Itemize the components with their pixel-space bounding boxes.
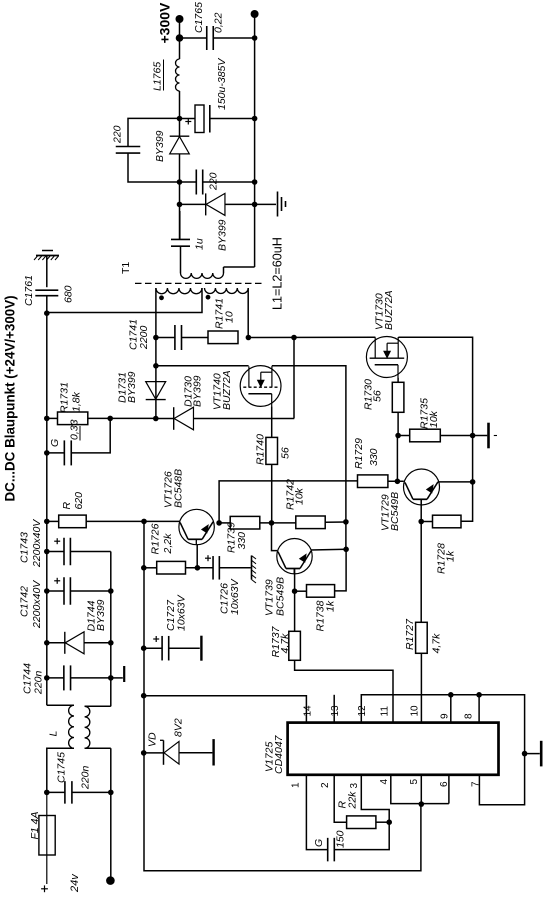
capacitor C1761 xyxy=(46,256,48,288)
svg-text:4: 4 xyxy=(379,779,390,785)
node C1744 0V xyxy=(108,675,114,681)
node A2 150u xyxy=(252,116,258,122)
node C1745 left xyxy=(44,790,50,796)
wire 0V rail upper xyxy=(110,552,112,707)
node cross link xyxy=(291,335,297,341)
resistor R1728 xyxy=(421,521,432,523)
svg-text:10x63V: 10x63V xyxy=(176,594,188,631)
svg-text:R1731: R1731 xyxy=(59,382,71,413)
winding polarity dot left xyxy=(159,295,164,300)
node zener rail xyxy=(141,750,147,756)
pin 9 stub xyxy=(450,695,452,723)
svg-text:1,8k: 1,8k xyxy=(71,391,83,412)
diode D1730 BY399 xyxy=(173,407,175,430)
node RC junction xyxy=(386,819,392,825)
node A1 xyxy=(176,34,184,42)
node A2 C1765 xyxy=(252,35,258,41)
wire collector riser xyxy=(219,481,357,523)
wire emitter VT1726 down xyxy=(196,545,198,568)
node C1745 right xyxy=(108,790,114,796)
svg-text:C1745: C1745 xyxy=(56,752,68,783)
wire +24V rail xyxy=(46,313,48,705)
node C1741 left xyxy=(153,335,159,341)
svg-text:2200x40V: 2200x40V xyxy=(31,580,43,629)
svg-text:10: 10 xyxy=(409,705,420,717)
svg-text:R1729: R1729 xyxy=(353,438,365,469)
capacitor C1743 xyxy=(47,551,64,553)
capacitor C1741 xyxy=(156,337,175,339)
node drain link R1742 xyxy=(343,519,349,525)
wire +300V rail upper xyxy=(179,19,181,59)
capacitor C1745 xyxy=(47,791,65,793)
svg-text:BY399: BY399 xyxy=(192,375,204,407)
wire source VT1740 xyxy=(271,407,273,438)
node C1742 0V xyxy=(108,588,114,594)
ground IC right xyxy=(525,753,540,755)
transistor VT1726 BC548B xyxy=(179,509,214,544)
svg-text:5: 5 xyxy=(409,779,420,785)
svg-text:330: 330 xyxy=(368,448,380,466)
fuse F1 xyxy=(39,816,55,856)
svg-text:R1727: R1727 xyxy=(404,618,416,650)
inductor L1765 xyxy=(176,59,180,91)
node ground R1735 xyxy=(470,433,476,439)
wire source VT1730 xyxy=(397,378,399,383)
ground output xyxy=(255,203,276,205)
ground C1726 xyxy=(251,556,253,580)
capacitor C1765 xyxy=(180,37,207,39)
node D1744 rail xyxy=(44,640,50,646)
node R620 rail xyxy=(44,519,50,525)
svg-text:G: G xyxy=(49,439,61,447)
wire emitter VT1739 xyxy=(311,548,346,551)
svg-text:C1743: C1743 xyxy=(19,532,31,563)
mosfet VT1730 BUZ72A xyxy=(366,337,407,378)
svg-text:10k: 10k xyxy=(294,487,306,505)
node pin9 xyxy=(448,692,454,698)
plus terminal xyxy=(41,888,48,890)
pin 2 wire xyxy=(334,775,346,822)
node ground IC xyxy=(522,751,528,757)
svg-text:1k: 1k xyxy=(445,550,457,562)
diode D_B BY399 lower xyxy=(180,203,206,205)
resistor R1726 xyxy=(144,567,157,569)
svg-text:BY399: BY399 xyxy=(154,130,166,162)
capacitor C1742 xyxy=(47,590,64,592)
svg-text:220n: 220n xyxy=(80,765,92,790)
node D1731 xyxy=(153,416,159,422)
svg-text:C1761: C1761 xyxy=(23,275,35,306)
wire emitter VT1729 right xyxy=(438,481,473,483)
svg-text:9: 9 xyxy=(439,713,450,719)
resistor R1740 xyxy=(266,437,278,464)
svg-text:220: 220 xyxy=(112,125,124,144)
ground C1744 xyxy=(111,677,123,679)
svg-text:R1740: R1740 xyxy=(255,434,267,465)
pin 13 stub xyxy=(333,695,335,723)
wire to pin 14 xyxy=(144,696,307,723)
wire primary left end down xyxy=(155,288,157,419)
node pin5 xyxy=(419,801,425,807)
transformer T1 primary right winding xyxy=(205,288,249,293)
ground R1735 xyxy=(473,435,488,437)
svg-text:2200x40V: 2200x40V xyxy=(31,519,43,568)
capacitor C1726 xyxy=(212,556,214,580)
svg-text:BC549B: BC549B xyxy=(275,577,287,616)
mosfet VT1740 BUZ72A xyxy=(240,366,281,407)
diode D1744 BY399 xyxy=(47,642,65,644)
node +300V terminal xyxy=(176,15,184,23)
svg-text:VD: VD xyxy=(147,732,159,747)
capacitor C1744 xyxy=(47,677,64,679)
wire base VT1739 xyxy=(272,523,278,551)
node D1744 0V xyxy=(108,640,114,646)
pin 6 stub xyxy=(448,775,450,804)
svg-text:13: 13 xyxy=(330,705,341,717)
svg-text:L1=L2=60uH: L1=L2=60uH xyxy=(271,237,285,310)
svg-text:BY399: BY399 xyxy=(95,599,107,631)
node +24V tap xyxy=(44,310,50,316)
svg-text:L: L xyxy=(48,731,60,737)
svg-text:4,7k: 4,7k xyxy=(431,633,443,654)
resistor R1737 xyxy=(294,591,296,631)
wire drain VT1740 xyxy=(272,366,346,550)
svg-text:0,22: 0,22 xyxy=(213,12,225,33)
node 0.33 junction xyxy=(107,416,113,422)
svg-text:220: 220 xyxy=(208,172,220,191)
svg-text:BUZ72A: BUZ72A xyxy=(383,290,395,330)
wire center tap xyxy=(47,288,202,313)
node rail R1731 xyxy=(44,416,50,422)
svg-text:R1726: R1726 xyxy=(150,523,162,554)
svg-text:1k: 1k xyxy=(325,600,337,612)
node C1744 rail xyxy=(44,675,50,681)
svg-text:10: 10 xyxy=(224,311,236,323)
resistor R1730 xyxy=(392,382,404,412)
pin 4 stub xyxy=(391,775,449,804)
wire cross link down xyxy=(293,338,295,419)
node A2 220 xyxy=(252,179,258,185)
node C1743 rail xyxy=(44,549,50,555)
svg-text:G: G xyxy=(313,839,325,847)
pin 5 stub xyxy=(420,775,422,805)
node W1 rail xyxy=(141,693,147,699)
node pin8 xyxy=(476,692,482,698)
node emitter rail xyxy=(470,479,476,485)
svg-text:150: 150 xyxy=(335,830,347,848)
capacitor 0,33 xyxy=(44,450,50,456)
node snubber top xyxy=(177,179,183,185)
svg-text:11: 11 xyxy=(379,706,390,717)
svg-text:14: 14 xyxy=(303,705,314,717)
wire rail L1765 to C150u xyxy=(179,91,181,136)
transformer T1 secondary winding xyxy=(181,273,224,278)
svg-text:CD4047: CD4047 xyxy=(273,734,285,774)
node A2 diode xyxy=(252,202,258,208)
wire node to R1730 xyxy=(396,436,398,482)
pin 8 stub xyxy=(478,695,480,723)
wire base drop VT1729 xyxy=(420,499,422,521)
svg-text:T1: T1 xyxy=(120,262,132,274)
choke L winding A xyxy=(47,704,74,706)
node C1742 rail xyxy=(44,588,50,594)
svg-text:BC548B: BC548B xyxy=(173,469,185,508)
node emitter VT1739 xyxy=(343,547,349,553)
wire gate VT1740 xyxy=(156,365,249,367)
svg-text:620: 620 xyxy=(73,492,85,510)
node C1727 rail xyxy=(141,645,147,651)
wire 0V rail lower xyxy=(110,748,112,880)
svg-text:22k: 22k xyxy=(347,791,359,810)
resistor R1735 xyxy=(398,435,410,437)
capacitor 1u xyxy=(179,211,181,239)
capacitor 220 snubber xyxy=(128,118,180,146)
svg-text:4,7k: 4,7k xyxy=(279,633,291,654)
node A2 top xyxy=(251,10,259,18)
node collector VT1726 xyxy=(216,520,222,526)
capacitor 150u-385V xyxy=(180,118,196,120)
wire diode row xyxy=(156,418,174,420)
resistor R1729 xyxy=(358,475,388,488)
node base feed xyxy=(141,519,147,525)
svg-text:10x63V: 10x63V xyxy=(229,578,241,615)
transformer T1 core xyxy=(135,282,265,284)
diode D1731 BY399 xyxy=(146,399,166,401)
node R1741 right xyxy=(246,335,252,341)
node R1738 junction xyxy=(292,588,298,594)
svg-text:2,2k: 2,2k xyxy=(162,533,174,555)
svg-text:BC549B: BC549B xyxy=(389,492,401,531)
resistor R620 xyxy=(47,520,59,522)
svg-text:8V2: 8V2 xyxy=(173,718,185,737)
resistor R1739 xyxy=(219,522,230,524)
svg-text:24v: 24v xyxy=(69,873,81,893)
svg-text:DC...DC Blaupunkt (+24V/+300V): DC...DC Blaupunkt (+24V/+300V) xyxy=(3,295,18,501)
svg-text:6: 6 xyxy=(439,781,450,787)
svg-text:C1742: C1742 xyxy=(19,586,31,617)
wire rail diode to 220 node xyxy=(179,154,181,239)
svg-text:56: 56 xyxy=(372,390,384,402)
node base VT1729 xyxy=(395,479,401,485)
svg-text:C1765: C1765 xyxy=(193,2,205,33)
svg-text:F1 4A: F1 4A xyxy=(29,811,41,839)
node R1740 bottom xyxy=(269,520,275,526)
transformer T1 primary left winding xyxy=(156,288,202,294)
node rail R1726 xyxy=(141,565,147,571)
winding polarity dot right xyxy=(206,295,211,300)
ground input top xyxy=(42,250,53,252)
pin 1 wire and timing cap xyxy=(306,775,327,850)
node R1728 left xyxy=(418,519,424,525)
svg-text:680: 680 xyxy=(63,285,75,303)
svg-text:3: 3 xyxy=(349,783,360,789)
svg-text:BY399: BY399 xyxy=(126,371,138,403)
svg-text:10k: 10k xyxy=(428,410,440,428)
svg-text:7: 7 xyxy=(470,781,481,787)
choke L winding B xyxy=(85,705,111,707)
svg-text:R: R xyxy=(61,502,73,510)
svg-text:L1765: L1765 xyxy=(152,62,164,91)
resistor R1742 xyxy=(296,516,325,529)
node emitter junction xyxy=(195,565,201,571)
svg-text:2200: 2200 xyxy=(138,325,150,350)
wire primary right end down xyxy=(247,288,249,338)
svg-text:220n: 220n xyxy=(33,670,45,695)
resistor R1738 xyxy=(295,590,307,592)
svg-text:330: 330 xyxy=(236,532,248,550)
node R1730 bottom xyxy=(395,433,401,439)
svg-text:8: 8 xyxy=(464,713,475,719)
node gate wire VT1740 xyxy=(153,363,159,369)
svg-text:1u: 1u xyxy=(194,238,206,250)
svg-text:1: 1 xyxy=(291,782,302,788)
ground C1727 xyxy=(200,636,202,661)
capacitor 220 second xyxy=(180,181,197,183)
transistor VT1729 BC549B xyxy=(404,469,440,505)
resistor R 22k xyxy=(347,816,376,829)
diode D_A BY399 top rectifier xyxy=(170,135,190,137)
svg-text:0,33: 0,33 xyxy=(69,419,81,440)
svg-text:BUZ72A: BUZ72A xyxy=(221,370,233,410)
svg-text:2: 2 xyxy=(320,782,331,788)
ground zener xyxy=(212,739,214,765)
pin 3 wire xyxy=(361,775,389,822)
resistor R1731 xyxy=(47,417,58,419)
minus terminal xyxy=(106,876,115,885)
wire R1737 to pin11 xyxy=(295,660,393,722)
wire gate VT1730 xyxy=(248,336,375,338)
wire right output rail xyxy=(254,14,256,267)
svg-text:56: 56 xyxy=(280,447,292,459)
resistor R1741 xyxy=(208,331,238,344)
wire drain VT1730 to rail xyxy=(398,337,472,521)
resistor R1727 xyxy=(420,522,422,623)
node A1 dot2 xyxy=(177,116,183,122)
wire left rail to bottom xyxy=(144,521,421,870)
zener VD 8V2 xyxy=(144,752,164,754)
wire VT1739 down xyxy=(294,569,296,592)
svg-text:150u-385V: 150u-385V xyxy=(216,58,228,110)
transistor VT1739 BC549B xyxy=(277,539,312,574)
svg-text:BY399: BY399 xyxy=(217,219,229,251)
IC V1725 CD4047 body xyxy=(288,723,499,775)
svg-text:12: 12 xyxy=(357,705,368,717)
pin 12 net wire xyxy=(361,695,524,805)
capacitor C1727 xyxy=(144,647,163,649)
svg-text:+300V: +300V xyxy=(157,2,173,44)
